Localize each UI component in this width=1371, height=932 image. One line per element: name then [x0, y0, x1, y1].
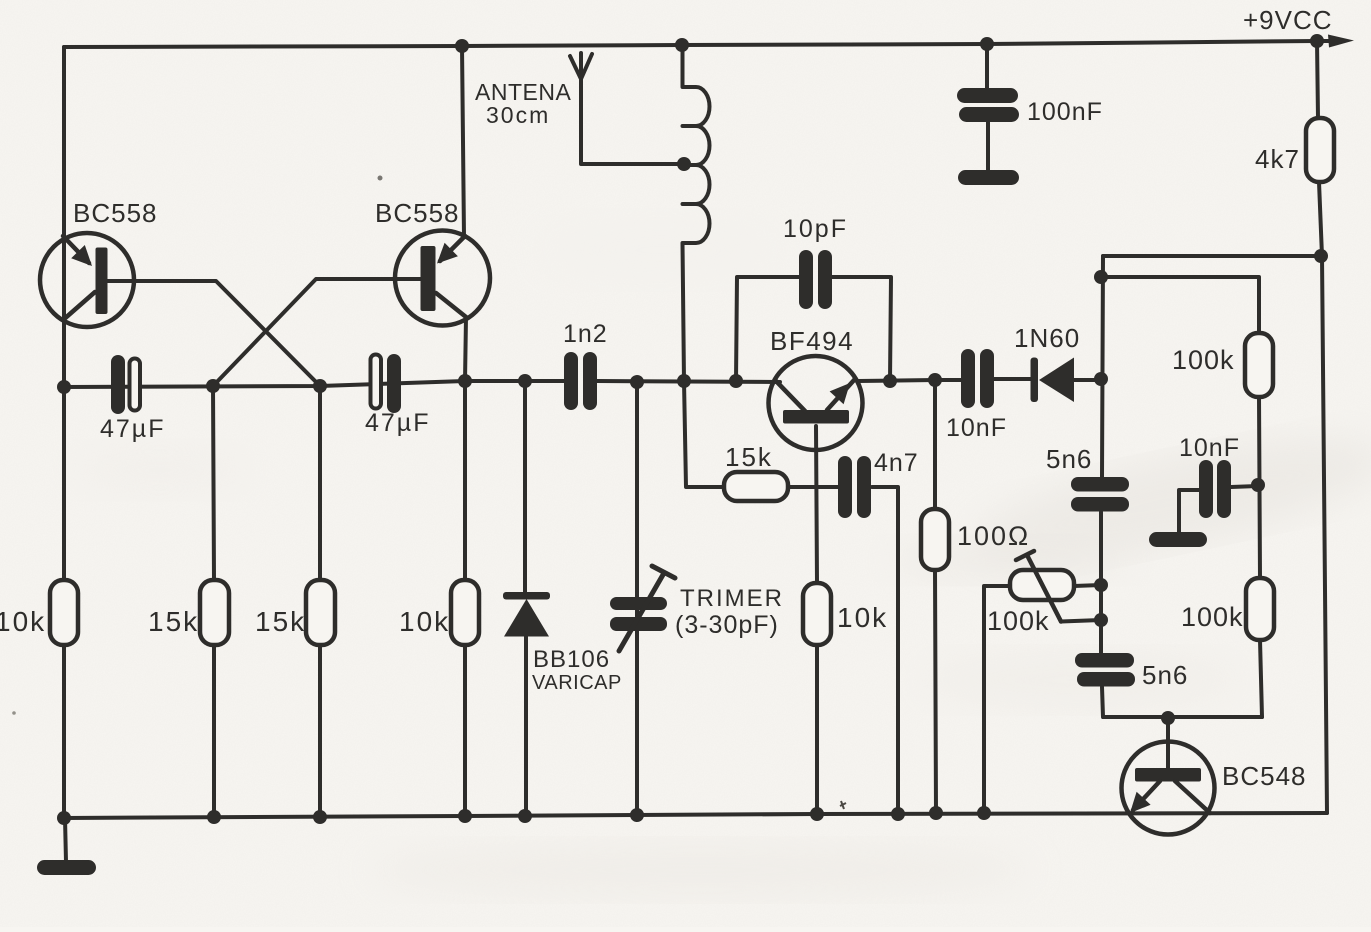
resistor R5 10k — [803, 583, 831, 645]
wire 5n6 C8 to horizontal — [1102, 687, 1262, 717]
wire 100nF to ground bar — [986, 122, 990, 172]
svg-text:100nF: 100nF — [1027, 98, 1103, 126]
svg-text:BC548: BC548 — [1222, 761, 1307, 791]
capacitor C5 4n7 — [838, 456, 871, 518]
svg-text:1n2: 1n2 — [563, 320, 608, 348]
trimpot P1 100k body — [1010, 570, 1074, 600]
trimmer CV1 plates — [610, 566, 675, 651]
wire trimmer lead — [635, 382, 639, 815]
wire 10nF C9 right to node — [1231, 486, 1258, 487]
svg-text:5n6: 5n6 — [1046, 444, 1092, 474]
wire left vertical (Q1 emitter/collector column) — [62, 47, 66, 818]
svg-text:100Ω: 100Ω — [957, 521, 1030, 551]
svg-text:15k: 15k — [725, 442, 773, 472]
wire bottom ground bus — [64, 813, 1327, 818]
svg-text:10k: 10k — [399, 606, 450, 637]
svg-text:BC558: BC558 — [375, 198, 460, 228]
svg-text:4n7: 4n7 — [874, 449, 919, 477]
wire Q2 base to cross node A — [213, 279, 421, 386]
antenna ANT1 — [570, 53, 684, 164]
svg-text:5n6: 5n6 — [1142, 660, 1188, 690]
svg-text:47µF: 47µF — [100, 415, 165, 443]
svg-text:10k: 10k — [837, 602, 888, 633]
ground at 10nF C9 — [1149, 532, 1207, 547]
wire R3 15k bottom lead — [318, 645, 322, 817]
wire node to BC548 base — [1166, 718, 1170, 770]
wire 10nF C9 left to ground — [1179, 490, 1199, 532]
wire branch to 100k R8 — [1103, 277, 1259, 333]
capacitor C9 10nF — [1199, 460, 1231, 518]
wire 100R R7 top lead — [933, 380, 937, 509]
svg-text:1N60: 1N60 — [1014, 323, 1080, 353]
wire pot wiper to node — [1061, 620, 1101, 622]
svg-text:+9VCC: +9VCC — [1243, 5, 1333, 35]
wire R2 15k bottom lead — [212, 645, 216, 817]
wire 10pF bracket — [736, 277, 891, 381]
resistor R1 10k — [50, 580, 78, 645]
wire 100nF top lead — [985, 44, 989, 90]
wire Q2 collector column to bus — [465, 317, 466, 580]
wire right vertical 4k7 column — [1317, 41, 1327, 813]
node dots ground bus — [57, 806, 991, 825]
capacitor C2 47uF electrolytic — [371, 354, 402, 413]
node dots base bus — [57, 373, 942, 394]
wire 100R R7 bottom lead — [935, 570, 936, 813]
node dots right cluster — [1094, 249, 1328, 725]
wire 4n7 to bottom bus — [872, 487, 898, 814]
capacitor C7 5n6 — [1071, 477, 1129, 512]
svg-text:10nF: 10nF — [1179, 434, 1240, 462]
resistor R4 10k — [451, 580, 479, 645]
svg-text:(3-30pF): (3-30pF) — [675, 611, 779, 639]
capacitor C1 47uF electrolytic — [111, 355, 140, 414]
resistor R10 4k7 — [1306, 118, 1334, 182]
wire BB106 bottom lead — [524, 636, 528, 816]
wire top bracket to 4k7 node — [1103, 254, 1321, 258]
diode D1 1N60 — [1031, 358, 1075, 403]
capacitor C4 10pF — [799, 250, 832, 309]
svg-text:10pF: 10pF — [783, 215, 848, 243]
svg-text:10k: 10k — [0, 606, 46, 637]
coil L1 — [683, 47, 710, 381]
svg-text:15k: 15k — [255, 606, 306, 637]
trimpot P1 wiper arrow — [1016, 551, 1061, 622]
wire right cluster vertical upper — [1102, 256, 1103, 477]
transistor Q2 BC558 — [395, 231, 490, 326]
svg-text:BC558: BC558 — [73, 198, 158, 228]
node dot coil tap — [677, 157, 691, 171]
transistor Q1 BC558 — [40, 233, 134, 327]
svg-text:15k: 15k — [148, 606, 199, 637]
wire L1 tap to 15k R6 — [684, 381, 724, 487]
wire +9V top rail — [64, 41, 1342, 47]
wire 100k R9 to corner — [1260, 640, 1262, 717]
resistor R6 15k horizontal — [724, 472, 788, 501]
resistor R8 100k — [1245, 333, 1273, 397]
resistor R7 100ohm — [921, 509, 949, 570]
svg-text:10nF: 10nF — [946, 414, 1007, 442]
wire 10k R4 bottom lead — [463, 645, 467, 816]
svg-text:30cm: 30cm — [486, 102, 550, 128]
wire BF494 base to 10k R5 — [816, 426, 817, 583]
capacitor C8 5n6 — [1075, 653, 1135, 687]
wire 1N60 cathode to node — [1074, 378, 1101, 382]
arrow +9VCC — [1328, 35, 1354, 48]
wire BB106 top lead — [523, 381, 527, 592]
diode D2 BB106 varicap — [503, 592, 550, 637]
wire between 5n6 C7 and C8 — [1099, 512, 1103, 653]
transistor Q4 BC548 — [1122, 742, 1215, 835]
resistor R9 100k — [1246, 578, 1274, 640]
capacitor C6 10nF — [961, 349, 994, 408]
wire pot right lead — [1074, 585, 1101, 586]
capacitor C10 100nF — [957, 88, 1019, 122]
wire Q2 emitter column from rail — [462, 46, 464, 237]
svg-text:BB106: BB106 — [533, 646, 610, 673]
svg-text:100k: 100k — [1181, 602, 1244, 632]
svg-text:4k7: 4k7 — [1255, 144, 1300, 174]
svg-text:TRIMER: TRIMER — [680, 585, 784, 612]
ground at 100nF — [958, 170, 1019, 185]
wire 1N60 anode lead — [994, 377, 1031, 381]
wire bus BF494 to 10nF — [858, 380, 961, 381]
ground main — [37, 860, 96, 875]
wire R1 10k leads — [62, 387, 66, 818]
resistor R3 15k — [306, 580, 335, 645]
svg-text:VARICAP: VARICAP — [532, 672, 622, 694]
node dot detector — [1094, 372, 1108, 386]
wire R2 15k top lead — [213, 386, 214, 580]
svg-text:100k: 100k — [987, 606, 1050, 636]
wire 10k R5 bottom lead — [815, 645, 819, 814]
wire pot left lead down — [984, 586, 1010, 813]
node dots top rail — [455, 34, 1324, 53]
resistor R2 15k — [200, 580, 229, 645]
wire R3 15k top lead — [318, 386, 322, 580]
svg-text:47µF: 47µF — [365, 409, 430, 437]
wire 100k R8 to 100k R9 — [1259, 397, 1260, 578]
wire Q1 base to cross node B — [107, 281, 320, 386]
wire bus 1n2 to BF494 — [597, 381, 780, 382]
wire 15k R6 to 4n7 — [788, 485, 838, 489]
transistor Q3 BF494 — [769, 356, 863, 450]
svg-text:100k: 100k — [1172, 345, 1235, 375]
wire base bus (main horizontal) — [64, 381, 564, 387]
svg-text:BF494: BF494 — [770, 326, 854, 356]
wire ground stem — [65, 818, 66, 862]
capacitor C3 1n2 — [564, 352, 597, 410]
